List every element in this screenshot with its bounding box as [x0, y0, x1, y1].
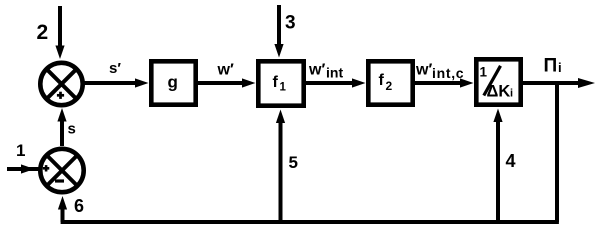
wire input 3 vertical — [277, 5, 281, 48]
summing junction summer1 — [40, 63, 82, 105]
arrowhead feedback 5 into f1 bottom — [276, 110, 285, 124]
arrowhead into 1/dKi — [460, 78, 474, 87]
svg-text:3: 3 — [285, 13, 296, 34]
wire feedback bottom horizontal — [61, 220, 559, 224]
wire block f2 to block 1/dKi — [415, 81, 466, 85]
arrowhead feedback 4 into 1/dKi bottom — [493, 109, 502, 123]
wire feedback 6 vertical — [61, 206, 65, 222]
wire input 2 vertical — [58, 6, 62, 50]
svg-text:1: 1 — [480, 65, 488, 80]
svg-text:i: i — [510, 88, 513, 100]
arrowhead input 2 — [55, 46, 64, 60]
wire feedback tap vertical right — [555, 83, 559, 222]
summing junction summer2 — [40, 149, 83, 192]
svg-text:i: i — [558, 60, 562, 75]
wire feedback 5 vertical — [279, 119, 283, 222]
svg-text:2: 2 — [37, 21, 49, 44]
svg-text:s: s — [68, 121, 76, 138]
svg-text:2: 2 — [386, 79, 393, 93]
block f2 — [368, 61, 412, 104]
wire block g to block f1 — [198, 81, 248, 85]
svg-text:Π: Π — [544, 56, 558, 77]
svg-text:w′: w′ — [308, 62, 325, 79]
wire s summer2 to summer1 — [60, 117, 64, 146]
wire block f1 to block f2 — [306, 81, 358, 85]
svg-text:w′: w′ — [415, 62, 432, 79]
svg-text:f: f — [273, 74, 279, 91]
svg-text:1: 1 — [280, 82, 287, 94]
wire input 1 horizontal — [7, 167, 39, 171]
arrowhead s into summer1 bottom — [57, 108, 66, 122]
arrowhead into f1 — [242, 78, 256, 87]
block 1/dKi — [476, 59, 520, 104]
svg-text:ΔK: ΔK — [487, 83, 511, 101]
arrowhead input 3 — [274, 44, 283, 58]
svg-text:s′: s′ — [109, 60, 121, 77]
svg-text:4: 4 — [506, 151, 516, 171]
block g — [151, 61, 195, 104]
svg-text:1: 1 — [16, 141, 25, 160]
svg-text:f: f — [379, 72, 385, 89]
svg-text:int,c: int,c — [432, 65, 464, 81]
svg-text:int: int — [326, 65, 343, 81]
arrowhead into g — [135, 78, 149, 87]
svg-text:w′: w′ — [217, 62, 234, 79]
arrowhead into f2 — [352, 78, 366, 87]
wire feedback 4 vertical — [496, 118, 500, 222]
svg-text:6: 6 — [74, 196, 84, 216]
svg-text:5: 5 — [289, 153, 298, 172]
block f1 — [258, 61, 303, 105]
arrowhead output — [578, 78, 595, 88]
wire summer1 to block g — [84, 81, 140, 85]
svg-text:g: g — [168, 73, 178, 92]
wire output line — [523, 81, 586, 85]
arrowhead feedback 6 into summer2 bottom — [58, 196, 67, 210]
arrowhead input 1 — [21, 164, 35, 173]
